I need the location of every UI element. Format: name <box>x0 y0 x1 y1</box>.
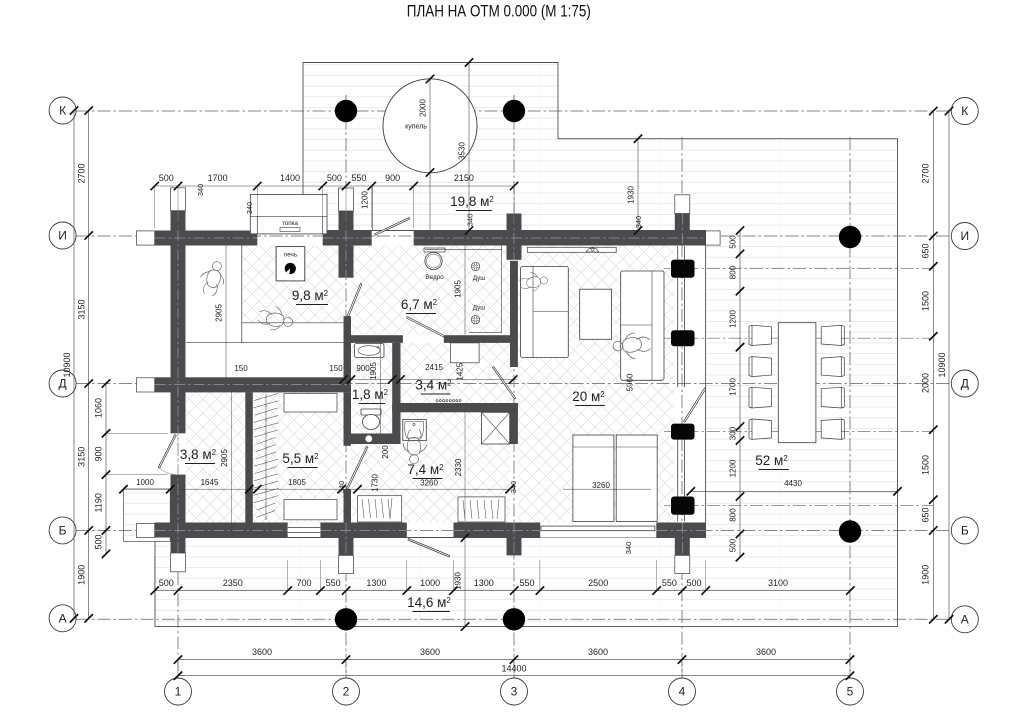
wardrobe 5.5 floor hatch <box>253 392 344 522</box>
wc washbasin <box>355 344 385 358</box>
svg-text:3600: 3600 <box>756 647 776 657</box>
terrace door east wall <box>684 388 706 422</box>
grid circle 3 bottom <box>501 678 528 705</box>
axis 5 line <box>849 137 851 678</box>
svg-text:2700: 2700 <box>921 163 931 183</box>
axis 1 line <box>177 228 179 678</box>
svg-text:340: 340 <box>466 214 475 227</box>
svg-text:2150: 2150 <box>454 173 474 183</box>
room 3.4 floor hatch <box>401 343 514 403</box>
svg-text:2415: 2415 <box>425 363 443 372</box>
grid circle 4 bottom <box>669 678 696 705</box>
svg-text:3530: 3530 <box>458 142 467 160</box>
dim 1200 near door <box>371 186 373 231</box>
svg-text:1700: 1700 <box>729 378 738 396</box>
black column dot at (850,237) <box>839 226 861 248</box>
washroom-3.4 door <box>407 317 445 337</box>
svg-text:200: 200 <box>381 445 390 459</box>
Б/4 cross stubs <box>675 538 690 556</box>
И wall east segment <box>414 231 706 246</box>
svg-text:А: А <box>961 612 969 626</box>
dim 1930 right step <box>637 139 639 231</box>
axis К line <box>76 110 951 112</box>
svg-text:500: 500 <box>686 578 701 588</box>
bench grate 2 <box>458 497 505 522</box>
3600 dimension chain <box>178 659 850 661</box>
partition north of room 7.4 <box>392 403 518 412</box>
Б wall segment 4 <box>657 523 706 538</box>
svg-text:1300: 1300 <box>474 578 494 588</box>
svg-text:14,6 м2: 14,6 м2 <box>407 595 451 610</box>
wardrobe west wall <box>245 392 253 522</box>
svg-text:150: 150 <box>234 364 248 373</box>
coat hooks <box>436 400 438 402</box>
dining chair right row <box>821 325 841 345</box>
axis centerline overlays on walls <box>155 237 258 239</box>
shower east thin wall upper <box>510 261 518 367</box>
svg-text:500: 500 <box>327 173 342 183</box>
svg-text:5,5 м2: 5,5 м2 <box>282 451 319 466</box>
svg-text:1400: 1400 <box>280 173 300 183</box>
axis 4 line <box>681 137 683 678</box>
svg-text:5960: 5960 <box>626 373 635 391</box>
living room 20 floor hatch <box>518 246 675 523</box>
Д wall <box>155 377 351 392</box>
svg-text:700: 700 <box>296 578 311 588</box>
black post 3 east wall <box>671 424 695 440</box>
svg-text:500: 500 <box>159 173 174 183</box>
И wall door to terrace <box>374 218 410 236</box>
partition dims line y=372.8 <box>330 379 517 381</box>
left 10900 dimension <box>73 111 75 619</box>
svg-text:Д: Д <box>961 377 969 391</box>
grid circle А right <box>951 606 978 633</box>
И wall west segment <box>155 231 258 246</box>
person on east sofa <box>612 332 651 361</box>
partition south of washroom east part <box>444 335 510 343</box>
axis 3 line <box>513 95 515 678</box>
svg-text:И: И <box>58 229 67 243</box>
dining chair right row <box>821 419 841 439</box>
dim 4430 <box>691 490 898 492</box>
wc east wall <box>392 343 400 444</box>
grid circle И right <box>951 223 978 250</box>
svg-text:1190: 1190 <box>94 493 104 512</box>
wardrobe shelf top <box>284 394 337 413</box>
lounge bed 2 <box>616 435 657 522</box>
svg-text:1500: 1500 <box>921 455 931 475</box>
west exterior door <box>158 435 176 468</box>
axis И line <box>76 235 951 237</box>
svg-text:550: 550 <box>519 578 534 588</box>
grid circle Б left <box>49 517 76 544</box>
svg-text:340: 340 <box>509 481 518 494</box>
grid circle 2 bottom <box>333 678 360 705</box>
И/3 cross stubs <box>507 214 522 231</box>
grid circle А left <box>49 605 76 632</box>
shower glass partition <box>501 246 503 333</box>
Б/3 cross stubs <box>507 538 522 556</box>
shower east thin wall lower <box>510 403 518 444</box>
top dimension chain <box>155 185 514 187</box>
sauna floor hatch <box>242 246 344 323</box>
sauna bench west <box>241 246 243 343</box>
svg-text:А: А <box>59 611 67 625</box>
svg-text:6,7 м2: 6,7 м2 <box>401 297 438 312</box>
window in Б wall 700 <box>288 525 321 534</box>
svg-text:Душ: Душ <box>473 275 486 282</box>
coffee table <box>580 289 612 339</box>
svg-text:1905: 1905 <box>454 280 463 298</box>
svg-text:3,8 м2: 3,8 м2 <box>180 447 217 462</box>
svg-text:9,8 м2: 9,8 м2 <box>292 288 329 303</box>
svg-text:5: 5 <box>847 685 854 699</box>
svg-text:800: 800 <box>729 265 738 279</box>
svg-text:К: К <box>961 104 968 118</box>
svg-text:1730: 1730 <box>371 474 380 492</box>
person on west sofa <box>518 269 548 293</box>
svg-text:1000: 1000 <box>420 578 440 588</box>
svg-text:550: 550 <box>662 578 677 588</box>
living room door to shower <box>493 367 516 399</box>
black post 2 east wall <box>671 330 695 346</box>
shower tray <box>482 412 510 444</box>
svg-text:3150: 3150 <box>77 447 87 467</box>
svg-text:900: 900 <box>385 173 400 183</box>
svg-text:Б: Б <box>59 523 67 537</box>
wardrobe hanger rail <box>265 394 267 520</box>
svg-text:3260: 3260 <box>592 481 610 490</box>
axis А line <box>76 618 951 620</box>
svg-text:И: И <box>960 229 969 243</box>
svg-text:340: 340 <box>245 202 254 215</box>
axis Д line <box>76 383 951 385</box>
room 3.8 floor hatch <box>186 392 245 522</box>
washroom dim 1905 <box>464 246 466 335</box>
svg-text:Ведро: Ведро <box>425 274 444 281</box>
grid circle Д right <box>951 370 978 397</box>
svg-text:3600: 3600 <box>252 647 272 657</box>
И/4 cross stubs <box>675 214 690 231</box>
axis 2 line <box>345 95 347 678</box>
svg-text:1060: 1060 <box>94 398 104 418</box>
west wall upper <box>171 231 186 434</box>
svg-text:1930: 1930 <box>627 186 636 204</box>
svg-text:3,4 м2: 3,4 м2 <box>415 378 452 393</box>
big window in Б wall 2500 <box>540 523 657 538</box>
dining chair left row <box>752 325 771 345</box>
kupel (hot tub) circle <box>383 79 477 173</box>
Б/2 cross stubs <box>339 538 354 556</box>
svg-text:1300: 1300 <box>366 578 386 588</box>
stove (pech) <box>276 247 305 281</box>
svg-text:1500: 1500 <box>921 291 931 311</box>
topka niche <box>250 194 327 234</box>
svg-text:340: 340 <box>196 184 205 197</box>
svg-text:3: 3 <box>511 685 518 699</box>
black column dot at (514,111) <box>503 100 525 122</box>
grid circle 1 bottom <box>165 678 192 705</box>
7.4 washbasin <box>403 419 427 440</box>
terrace deck outline and plank floor <box>155 63 898 627</box>
black post 1 east wall <box>671 260 695 278</box>
dims line y=489.2 rooms 3.8/5.5 <box>124 488 510 490</box>
washroom 6.7 floor hatch <box>351 246 510 336</box>
toilet <box>361 409 381 415</box>
И/1 cross stubs <box>171 211 186 231</box>
svg-text:1000: 1000 <box>136 478 154 487</box>
svg-text:900: 900 <box>356 364 370 373</box>
svg-text:Д: Д <box>59 377 67 391</box>
lounge bed 1 <box>573 435 614 522</box>
svg-text:1905: 1905 <box>369 362 378 380</box>
window post dimension chain <box>739 231 741 558</box>
svg-text:3100: 3100 <box>768 578 788 588</box>
grid circle К right <box>951 98 978 125</box>
svg-text:2905: 2905 <box>215 304 224 322</box>
Д/1 cross stub <box>137 378 155 392</box>
svg-text:топка: топка <box>282 220 299 227</box>
svg-text:К: К <box>59 104 66 118</box>
svg-text:ПЛАН НА ОТМ 0.000 (М 1:75): ПЛАН НА ОТМ 0.000 (М 1:75) <box>407 2 591 21</box>
sauna bench south <box>242 322 344 324</box>
person lying in sauna lower <box>257 304 295 333</box>
svg-text:300: 300 <box>729 426 738 440</box>
kupel vertical dim 2000 <box>429 79 431 230</box>
svg-text:4: 4 <box>679 685 686 699</box>
person at basin 7.4 <box>403 429 427 464</box>
svg-text:550: 550 <box>326 578 341 588</box>
black post 4 east wall <box>671 497 695 515</box>
svg-text:1805: 1805 <box>288 478 306 487</box>
svg-text:800: 800 <box>729 508 738 522</box>
room 7.4 + hall floor hatch <box>351 412 510 522</box>
axis Б line <box>76 529 951 531</box>
svg-text:500: 500 <box>729 235 738 249</box>
svg-text:340: 340 <box>634 216 643 229</box>
svg-text:10900: 10900 <box>937 352 947 377</box>
svg-text:2000: 2000 <box>921 373 931 393</box>
svg-text:3600: 3600 <box>420 647 440 657</box>
svg-text:1200: 1200 <box>729 459 738 477</box>
svg-text:550: 550 <box>351 173 366 183</box>
Б wall segment 2 <box>320 523 406 538</box>
svg-text:Душ: Душ <box>473 305 486 312</box>
dining chair left row <box>752 419 771 439</box>
svg-text:500: 500 <box>729 538 738 552</box>
svg-text:1645: 1645 <box>201 478 219 487</box>
svg-text:2700: 2700 <box>77 163 87 183</box>
dining chair right row <box>821 387 841 408</box>
black column dot at (514,619.3) <box>503 608 525 630</box>
svg-text:1: 1 <box>175 685 182 699</box>
svg-text:7,4 м2: 7,4 м2 <box>407 462 444 477</box>
svg-text:1,8 м2: 1,8 м2 <box>352 387 389 402</box>
svg-text:3260: 3260 <box>420 479 438 488</box>
sauna dim 2905 <box>225 246 227 378</box>
svg-text:1700: 1700 <box>208 173 228 183</box>
svg-text:1425: 1425 <box>456 362 465 380</box>
right 10900 dimension <box>948 111 950 619</box>
tv console <box>527 247 616 252</box>
svg-text:2905: 2905 <box>220 449 229 467</box>
14400 dimension <box>178 675 850 677</box>
wardrobe door <box>347 447 368 490</box>
svg-text:19,8 м2: 19,8 м2 <box>450 194 494 209</box>
svg-text:4430: 4430 <box>784 479 802 488</box>
east glazing frames <box>677 246 679 260</box>
svg-text:500: 500 <box>159 578 174 588</box>
svg-text:3600: 3600 <box>588 647 608 657</box>
svg-text:340: 340 <box>337 481 346 494</box>
svg-text:3150: 3150 <box>77 299 87 319</box>
svg-text:2: 2 <box>343 685 350 699</box>
window post center lines <box>664 268 933 270</box>
sofa east <box>621 271 664 380</box>
porch at west door <box>124 489 171 541</box>
dining chair left row <box>752 357 771 377</box>
svg-text:2350: 2350 <box>223 578 243 588</box>
grid circle Д left <box>49 370 76 397</box>
wc south wall <box>344 434 401 445</box>
sauna door <box>347 284 362 317</box>
grid circle И left <box>49 222 76 249</box>
svg-text:купель: купель <box>405 124 427 131</box>
wardrobe east wall lower <box>344 489 352 523</box>
black column dot at (346,619.3) <box>335 608 357 630</box>
left inner dimension chain <box>105 384 107 554</box>
right dimension chain <box>932 111 934 619</box>
dining table <box>778 323 816 443</box>
wc dim 1905 <box>380 343 382 434</box>
svg-text:500: 500 <box>94 534 104 549</box>
dining chair left row <box>752 387 771 408</box>
grid circle Б right <box>951 517 978 544</box>
svg-text:150: 150 <box>329 364 343 373</box>
svg-text:1900: 1900 <box>921 565 931 585</box>
partition south of washroom west part <box>344 335 403 343</box>
bench in 3.4 <box>450 343 479 363</box>
Б/1 cross stubs <box>137 523 155 537</box>
svg-text:1900: 1900 <box>77 565 87 585</box>
svg-text:1930: 1930 <box>454 572 463 590</box>
svg-text:1200: 1200 <box>729 310 738 328</box>
grid circle 5 bottom <box>837 678 864 705</box>
dim 1930 bottom <box>464 538 466 627</box>
dining chair right row <box>821 357 841 377</box>
bottom dimension chain <box>155 590 851 592</box>
И wall mid segment <box>323 231 372 246</box>
dim 3530 line <box>468 63 470 231</box>
svg-text:1200: 1200 <box>361 191 370 209</box>
shower symbol 1 <box>471 262 479 270</box>
svg-text:650: 650 <box>921 243 931 258</box>
wc 1.8 floor hatch <box>351 343 392 434</box>
left outer dimension chain <box>88 111 90 619</box>
Б wall segment 1 <box>155 523 288 538</box>
svg-text:2000: 2000 <box>419 99 428 117</box>
svg-text:10900: 10900 <box>62 352 72 377</box>
svg-text:2330: 2330 <box>454 458 463 476</box>
wardrobe shelf bottom <box>284 500 337 520</box>
sofa west <box>521 266 569 357</box>
black column dot at (346,111) <box>335 100 357 122</box>
svg-text:печь: печь <box>284 252 298 259</box>
black column dot at (850,531.5) <box>839 520 861 542</box>
bench grate 1 <box>358 496 402 522</box>
grid circle К left <box>49 97 76 124</box>
west wall lower <box>171 475 186 553</box>
svg-text:650: 650 <box>921 507 931 522</box>
vedro (bucket) <box>424 248 445 252</box>
entrance door Б wall <box>408 539 450 558</box>
shower symbol 2 <box>471 316 479 324</box>
И/2 cross stubs <box>339 211 354 231</box>
svg-text:Б: Б <box>961 523 969 537</box>
svg-text:340: 340 <box>624 542 633 555</box>
wardrobe east wall upper <box>344 392 352 445</box>
person sitting in sauna upper <box>196 258 228 297</box>
Б wall segment 3 <box>454 523 540 538</box>
svg-text:900: 900 <box>94 446 104 461</box>
sauna east wall lower part <box>344 316 352 377</box>
svg-text:2500: 2500 <box>588 578 608 588</box>
